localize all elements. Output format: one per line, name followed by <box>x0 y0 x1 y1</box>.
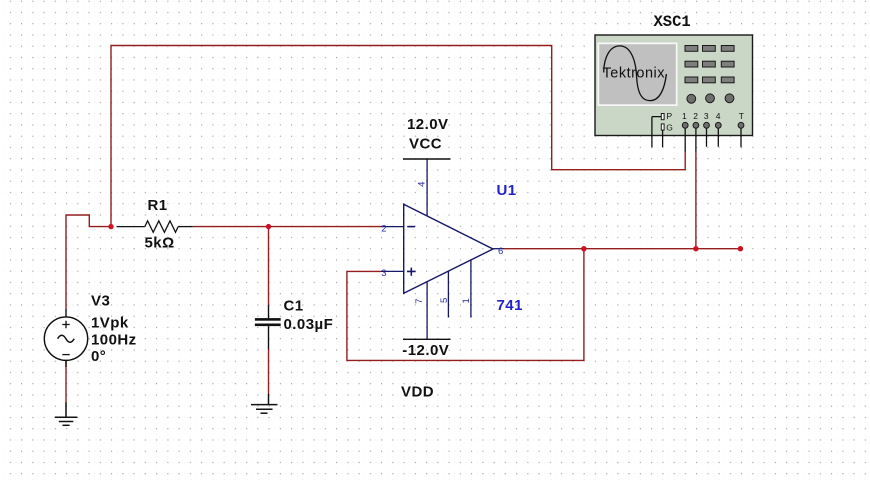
scope channel pins 1-4 and T <box>682 111 744 152</box>
wire scope pin 2 down to output rail <box>695 151 697 249</box>
svg-text:3: 3 <box>704 111 709 121</box>
svg-text:U1: U1 <box>497 182 517 199</box>
svg-text:T: T <box>739 111 744 121</box>
svg-text:6: 6 <box>498 246 503 257</box>
svg-text:1: 1 <box>682 111 687 121</box>
svg-text:5kΩ: 5kΩ <box>145 234 175 251</box>
svg-text:Tektronix: Tektronix <box>603 65 666 81</box>
wire feedback loop to op-amp + input <box>347 249 584 361</box>
capacitor C1 bottom lead <box>268 326 270 349</box>
wire top feedback from node A up and across to scope pin 1 <box>111 46 685 227</box>
svg-text:4: 4 <box>417 182 428 187</box>
voltage source V3 <box>44 309 87 367</box>
scope buttons <box>685 46 734 83</box>
svg-text:VCC: VCC <box>409 136 442 153</box>
wire C1 bottom lead to ground <box>268 349 270 394</box>
svg-text:R1: R1 <box>148 197 168 214</box>
scope G terminal <box>661 122 673 147</box>
svg-text:4: 4 <box>716 111 721 121</box>
wire end dot <box>738 246 743 251</box>
svg-text:2: 2 <box>381 223 386 234</box>
oscilloscope XSC1 body <box>595 35 753 136</box>
svg-text:12.0V: 12.0V <box>407 116 448 133</box>
junction scope channel node <box>693 246 698 251</box>
svg-text:2: 2 <box>693 111 698 121</box>
svg-text:100Hz: 100Hz <box>91 331 137 348</box>
VDD power bar <box>403 338 451 340</box>
ground under V3 <box>55 402 78 425</box>
scope sine wave <box>604 46 667 101</box>
wire node B down to C1 top plate <box>268 227 270 305</box>
svg-text:741: 741 <box>497 297 523 314</box>
capacitor C1 <box>255 318 281 326</box>
junction output node <box>581 246 586 251</box>
svg-text:VDD: VDD <box>401 384 434 401</box>
wire V3 top to node A <box>66 215 111 309</box>
svg-text:V3: V3 <box>91 292 110 309</box>
svg-text:P: P <box>667 111 673 121</box>
svg-text:1: 1 <box>461 298 472 303</box>
svg-text:0°: 0° <box>91 348 106 365</box>
op-amp U1 <box>381 159 504 339</box>
svg-text:XSC1: XSC1 <box>654 13 691 31</box>
ground under C1 <box>251 394 278 413</box>
svg-text:C1: C1 <box>284 297 304 314</box>
svg-text:5: 5 <box>439 298 450 303</box>
svg-text:7: 7 <box>414 299 425 304</box>
capacitor C1 top lead <box>268 305 270 318</box>
svg-text:3: 3 <box>381 268 386 279</box>
svg-text:G: G <box>666 122 673 132</box>
wire output rail <box>504 248 740 250</box>
svg-text:0.03µF: 0.03µF <box>284 316 334 333</box>
junction node B <box>266 224 271 229</box>
VCC power bar <box>403 158 451 160</box>
svg-text:1Vpk: 1Vpk <box>91 314 129 331</box>
resistor R1 <box>117 221 193 232</box>
wire V3 bottom to ground <box>65 360 67 402</box>
svg-text:-12.0V: -12.0V <box>402 342 449 359</box>
junction node A <box>108 224 113 229</box>
scope P terminal <box>652 111 673 147</box>
wire R1 to C1 to op-amp - input <box>193 226 381 228</box>
scope knobs <box>687 94 734 103</box>
